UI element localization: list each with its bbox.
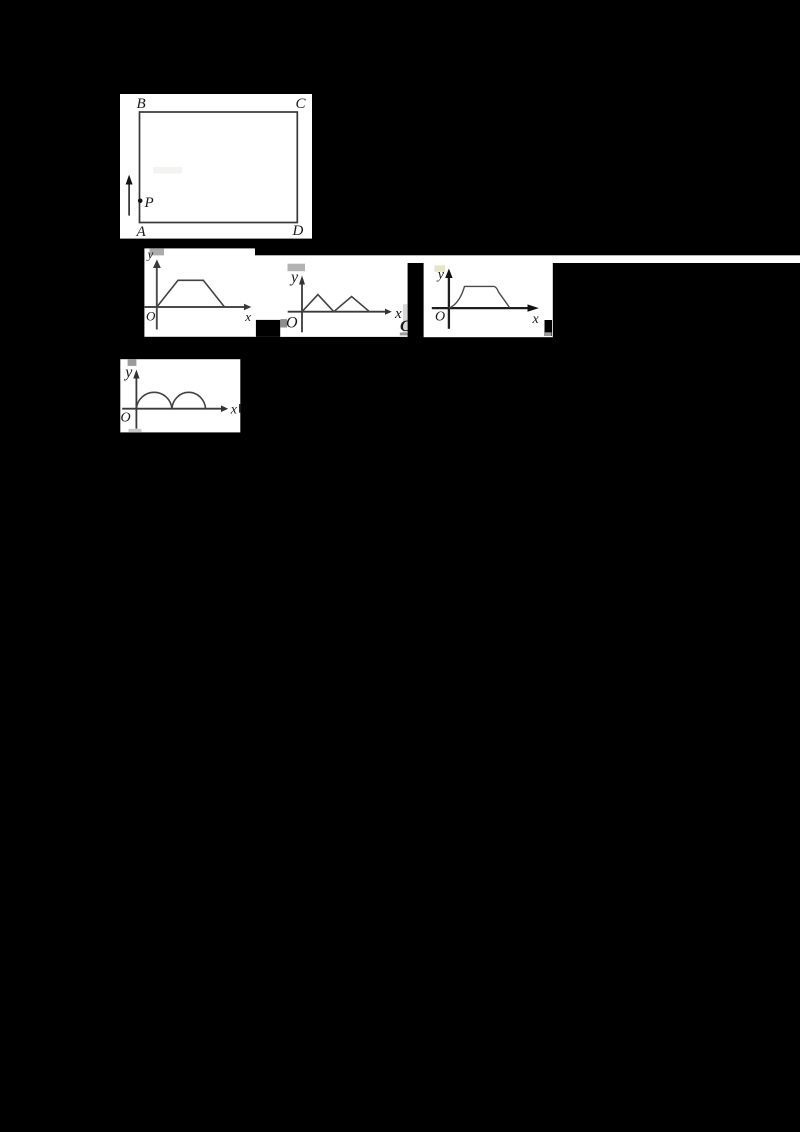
black scan patch bottom-right of panel C [545, 320, 553, 336]
svg-text:C: C [296, 96, 307, 112]
y axis arrowhead (B) [299, 276, 305, 285]
y axis arrowhead (C) [445, 269, 452, 279]
light gray strip right edge of panel B [403, 304, 408, 334]
white band strip right of panel A [255, 255, 800, 263]
y axis (C) [448, 274, 450, 329]
svg-text:A: A [136, 224, 147, 240]
faint smudge inside panel [153, 167, 182, 174]
y axis arrowhead (D) [133, 370, 139, 379]
svg-text:D: D [292, 223, 304, 239]
x axis arrowhead (A) [244, 304, 251, 310]
svg-text:O: O [121, 411, 131, 426]
y axis (B) [301, 281, 303, 332]
panel: rectangle ABCD figure [120, 94, 312, 239]
rectangle ABCD [140, 112, 298, 223]
trapezoid curve (A) [157, 280, 225, 307]
black gap bar between panels B and C [408, 263, 424, 337]
y axis (A) [156, 265, 158, 330]
svg-text:O: O [146, 309, 156, 324]
svg-text:O: O [435, 309, 445, 324]
svg-text:x: x [532, 312, 540, 327]
gray square left of O (B) [280, 319, 287, 327]
point P dot [138, 199, 143, 204]
x axis (D) [122, 408, 222, 410]
gray scan block above y label (A) [150, 248, 165, 255]
svg-text:y: y [436, 268, 445, 283]
plateau curve (C) [449, 286, 510, 308]
panel: graph option D [120, 359, 240, 432]
zigzag curve (B) [302, 295, 370, 312]
beige smudge above y label (C) [435, 265, 446, 272]
svg-text:x: x [244, 309, 251, 324]
x axis (A) [145, 306, 246, 308]
y axis arrowhead (A) [153, 259, 161, 268]
gray notch below y axis bottom (D) [129, 429, 142, 433]
x axis arrowhead (B) [385, 309, 392, 315]
tick mark right of x label (D) [239, 404, 241, 413]
x axis (C) [432, 307, 532, 309]
panel: graph option C [424, 261, 553, 337]
up arrow line [128, 183, 130, 216]
svg-text:x: x [230, 403, 238, 418]
x axis arrowhead (D) [221, 405, 228, 412]
x axis (B) [288, 311, 387, 313]
gray scan block above y label (B) [288, 264, 306, 272]
svg-text:y: y [289, 269, 299, 286]
gray strip below black patch (C) [544, 332, 552, 336]
x axis arrowhead (C) [528, 304, 539, 311]
panel: graph option A [144, 248, 255, 336]
up arrow head [126, 175, 133, 185]
black scan patch bottom-left of panel B [256, 320, 280, 337]
panel: graph option B [255, 256, 408, 337]
svg-text:O: O [286, 315, 298, 332]
two humps curve (D) [136, 392, 205, 408]
svg-text:y: y [146, 247, 154, 262]
gray strip below option label C [400, 333, 408, 336]
svg-text:B: B [137, 96, 146, 112]
svg-text:y: y [123, 364, 133, 381]
svg-text:P: P [144, 195, 154, 211]
gray scan block above y label (D) [128, 359, 137, 366]
y axis (D) [135, 375, 137, 429]
